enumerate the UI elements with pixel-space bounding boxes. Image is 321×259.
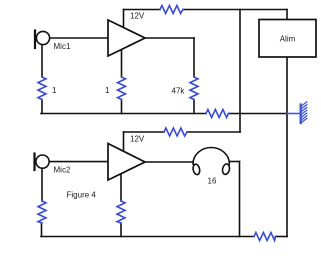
wire Alim top drop xyxy=(286,10,288,20)
wire R 47k bottom lead xyxy=(193,100,195,114)
chassis ground symbol (blue hatched) xyxy=(287,102,307,123)
wire bottom rail right segment xyxy=(276,236,288,238)
svg-text:Mic2: Mic2 xyxy=(54,166,71,175)
wire op-amp U2 output to headphone xyxy=(145,161,193,163)
wire Mic2 column upper lead xyxy=(41,169,43,202)
resistor R5 (U2 column) xyxy=(117,201,125,223)
svg-text:1: 1 xyxy=(105,86,110,95)
wire mid rail right segment xyxy=(229,113,288,115)
resistor R bottom supply (horizontal) xyxy=(164,128,187,136)
wire Mic1 column lower lead xyxy=(41,100,43,114)
wire Alim bottom column xyxy=(286,57,288,237)
resistor R bottom rail (horizontal) xyxy=(254,233,276,241)
microphone Mic2 xyxy=(35,154,50,171)
wire Mic2 column lower lead xyxy=(41,223,43,237)
wire top supply right segment xyxy=(183,9,287,11)
resistor R2 value 1 (U1 column) xyxy=(118,77,126,100)
svg-text:47k: 47k xyxy=(172,87,186,96)
power supply box Alim xyxy=(259,20,316,58)
svg-text:1: 1 xyxy=(52,86,57,95)
svg-text:Alim: Alim xyxy=(280,35,296,44)
wire top supply left segment xyxy=(124,9,161,11)
resistor R mid rail (horizontal) xyxy=(206,110,229,118)
wire 12V drop to op-amp U1 xyxy=(123,10,125,28)
wire headphone corner down xyxy=(239,162,241,237)
wire U1 bottom lead lower xyxy=(121,100,123,114)
wire op-amp U1 output xyxy=(145,37,194,39)
wire Mic1 to op-amp U1 input xyxy=(50,37,109,39)
wire headphone right to corner xyxy=(230,161,240,163)
svg-text:12V: 12V xyxy=(130,12,145,21)
headphone speaker 16 ohm xyxy=(192,148,230,176)
op-amp U2 xyxy=(108,144,145,181)
svg-text:12V: 12V xyxy=(130,135,145,144)
wire U2 bottom lead lower xyxy=(120,223,122,237)
wire bottom rail left segment xyxy=(41,236,254,238)
resistor R3 value 47k xyxy=(190,77,198,100)
microphone Mic1 xyxy=(35,31,50,49)
resistor R4 (Mic2 column) xyxy=(38,201,46,223)
op-amp U1 xyxy=(108,20,145,56)
wire mid rail left segment xyxy=(41,113,206,115)
wire 12V drop to op-amp U2 xyxy=(123,132,125,150)
wire Mic2 to op-amp U2 input xyxy=(50,161,109,163)
wire U2 bottom lead upper xyxy=(120,173,122,201)
resistor R1 value 1 (Mic1 column) xyxy=(38,77,46,100)
svg-text:16: 16 xyxy=(208,177,217,186)
wire bottom supply right segment xyxy=(187,131,240,133)
svg-text:Figure 4: Figure 4 xyxy=(67,191,97,200)
wire output down to R 47k xyxy=(193,38,195,77)
wire supply column at x=240 xyxy=(239,10,241,133)
wire Mic1 column upper lead xyxy=(41,45,43,78)
wire bottom supply left segment xyxy=(124,131,165,133)
wire U1 bottom lead upper xyxy=(121,50,123,77)
resistor R top supply (horizontal) xyxy=(160,6,183,14)
svg-text:Mic1: Mic1 xyxy=(54,42,71,51)
